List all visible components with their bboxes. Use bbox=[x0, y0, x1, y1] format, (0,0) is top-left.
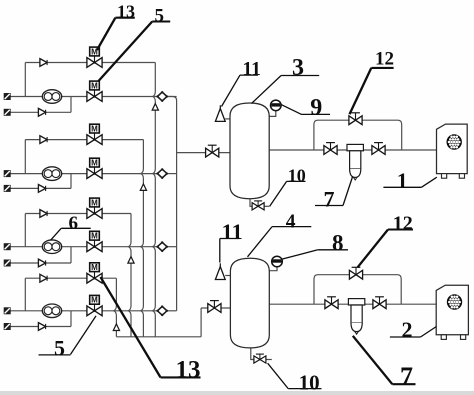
bottom scan band bbox=[0, 391, 474, 395]
wire unit2 suction main line bbox=[11, 173, 157, 175]
relief valve 11 (upper) bbox=[215, 105, 225, 121]
wire tank B drain stub bbox=[251, 347, 255, 360]
motor valve unit1 bypass bbox=[87, 47, 102, 67]
svg-text:9: 9 bbox=[310, 95, 322, 121]
pressure gauge 8 bbox=[272, 256, 283, 267]
flow check arrow on seal leg 3 bbox=[128, 257, 134, 264]
check valve unit2 bypass bbox=[40, 136, 47, 144]
inlet flange unit3 drain bbox=[4, 260, 11, 267]
svg-text:10: 10 bbox=[299, 370, 320, 394]
wire unit2 drain branch line bbox=[11, 187, 72, 189]
svg-text:13: 13 bbox=[176, 356, 201, 383]
inlet flange unit1 drain bbox=[4, 109, 11, 116]
check valve unit2 to header bbox=[156, 168, 168, 179]
wire unit3 main to header bbox=[166, 246, 177, 248]
wire unit3 bypass riser bbox=[24, 214, 26, 247]
vacuum pump unit 2 (packaged pump box) bbox=[436, 285, 468, 335]
svg-text:6: 6 bbox=[69, 213, 79, 234]
motor valve unit1 main bbox=[87, 81, 102, 101]
wire unit4 bypass riser bbox=[24, 278, 26, 311]
check valve unit3 to header bbox=[156, 241, 168, 252]
wire unit1 main to header bbox=[166, 96, 177, 98]
inlet flange unit3 main bbox=[4, 243, 11, 250]
check valve unit4 drain branch bbox=[38, 323, 45, 331]
wire bottom manifold bbox=[116, 336, 201, 338]
svg-text:11: 11 bbox=[243, 59, 261, 80]
wire tank A inlet line bbox=[177, 152, 230, 154]
vacuum pump unit 1 (packaged pump box) bbox=[437, 124, 468, 174]
wire unit1 drain branch line bbox=[11, 111, 72, 113]
wire tank A drain outlet stub bbox=[264, 205, 269, 207]
wire unit2 bypass riser bbox=[24, 140, 26, 174]
wire tank B gauge stub bbox=[269, 263, 277, 271]
roots pump P1 bbox=[42, 90, 61, 104]
wire tank A gauge stub bbox=[269, 107, 276, 116]
wire tank B inlet line bbox=[201, 307, 230, 309]
wire unit2 main to header bbox=[166, 173, 177, 175]
hand valve tank A inlet bbox=[206, 145, 219, 157]
hand valve tank B inlet bbox=[208, 301, 221, 313]
motor valve unit4 main bbox=[87, 295, 102, 315]
inlet flange unit4 drain bbox=[4, 323, 11, 330]
drain valve 10 (upper) bbox=[252, 201, 264, 210]
wire manifold riser to tank B inlet bbox=[200, 308, 202, 337]
inlet flange unit2 drain bbox=[4, 185, 11, 192]
motor valve unit3 bypass bbox=[87, 198, 102, 218]
flow check arrow on seal leg 4 bbox=[113, 324, 119, 331]
wire unit4 drain branch riser bbox=[70, 311, 72, 327]
svg-text:12: 12 bbox=[375, 49, 394, 70]
hand valve upstream of filter (lower) bbox=[325, 297, 338, 309]
svg-text:7: 7 bbox=[324, 186, 335, 211]
motor valve unit4 bypass bbox=[87, 263, 102, 283]
hand valve downstream of filter (lower) bbox=[373, 297, 386, 309]
roots pump P3 bbox=[42, 240, 61, 254]
svg-text:10: 10 bbox=[288, 166, 306, 186]
inlet flange unit2 main bbox=[4, 170, 11, 177]
svg-text:2: 2 bbox=[402, 317, 413, 342]
svg-text:7: 7 bbox=[400, 362, 413, 391]
wire tank B drain outlet stub bbox=[265, 359, 272, 361]
wire unit1 bypass riser bbox=[24, 63, 26, 97]
wire tank A bypass loop bbox=[314, 120, 402, 150]
flow check arrow on seal leg 2 bbox=[140, 184, 146, 191]
hand valve 12 (upper bypass) bbox=[349, 113, 362, 125]
wire unit1 suction main line bbox=[11, 96, 157, 98]
pressure gauge 9 bbox=[271, 100, 282, 111]
wire tank A outlet line bbox=[269, 149, 436, 151]
wire unit3 bypass line bbox=[25, 213, 131, 215]
wire unit4 drain branch line bbox=[11, 326, 72, 328]
wire unit4 suction main line bbox=[11, 310, 157, 312]
wire tank A relief stub bbox=[225, 118, 230, 120]
wire tank A drain stub bbox=[250, 198, 252, 207]
wire unit1 drain branch riser bbox=[70, 97, 72, 113]
tank 3 (upper receiver) bbox=[230, 103, 269, 199]
motor valve unit2 bypass bbox=[87, 124, 102, 144]
wire seal leg 4 bbox=[114, 278, 117, 337]
wire vacuum header bus bbox=[166, 97, 177, 311]
svg-text:5: 5 bbox=[54, 335, 65, 360]
roots pump P4 bbox=[42, 304, 61, 318]
tank 4 (lower receiver) bbox=[230, 258, 269, 348]
hand valve 12 (lower bypass) bbox=[349, 267, 362, 279]
filter 7 (lower) bbox=[348, 299, 364, 335]
wire seal leg 2 bbox=[141, 140, 144, 337]
svg-text:1: 1 bbox=[397, 168, 408, 193]
drain valve 10 (lower) bbox=[254, 354, 266, 363]
hand valve upstream of filter (upper) bbox=[324, 143, 337, 155]
svg-text:12: 12 bbox=[393, 212, 413, 234]
wire seal leg 3 bbox=[128, 214, 131, 337]
check valve unit4 bypass bbox=[40, 274, 47, 282]
relief valve 11 (lower) bbox=[215, 263, 225, 279]
check valve unit4 to header bbox=[156, 305, 168, 316]
motor valve unit2 main bbox=[87, 158, 102, 178]
wire tank B relief stub bbox=[225, 275, 230, 277]
wire unit4 bypass line bbox=[25, 277, 116, 279]
check valve unit1 to header bbox=[156, 91, 168, 102]
svg-text:4: 4 bbox=[286, 211, 296, 232]
hand valve downstream of filter (upper) bbox=[372, 143, 385, 155]
svg-text:3: 3 bbox=[292, 55, 304, 81]
check valve unit2 drain branch bbox=[38, 185, 45, 193]
check valve unit1 drain branch bbox=[38, 108, 45, 116]
flow check arrow on seal leg 1 bbox=[152, 104, 158, 111]
wire unit2 drain branch riser bbox=[70, 174, 72, 189]
svg-text:11: 11 bbox=[222, 219, 243, 244]
wire tank B outlet line bbox=[269, 303, 436, 305]
check valve unit1 bypass bbox=[40, 59, 47, 67]
roots pump P2 bbox=[42, 167, 61, 181]
motor valve unit3 main bbox=[87, 231, 102, 251]
wire unit2 bypass line bbox=[25, 139, 143, 141]
svg-text:5: 5 bbox=[155, 5, 165, 26]
wire unit4 main to header bbox=[166, 310, 177, 312]
wire tank B bypass loop bbox=[314, 275, 401, 305]
wire unit3 suction main line bbox=[11, 246, 157, 248]
wire unit3 drain branch line bbox=[11, 262, 72, 264]
inlet flange unit1 main bbox=[4, 93, 11, 100]
filter 7 (upper) bbox=[347, 144, 363, 180]
inlet flange unit4 main bbox=[4, 307, 11, 314]
wire unit3 drain branch riser bbox=[70, 247, 72, 263]
svg-text:8: 8 bbox=[332, 231, 344, 256]
wire unit1 bypass line bbox=[25, 62, 155, 64]
check valve unit3 drain branch bbox=[38, 259, 45, 267]
wire seal leg 1 (from unit1 bypass down to bottom manifold, jogs at crossings) bbox=[153, 63, 156, 337]
check valve unit3 bypass bbox=[40, 210, 47, 218]
